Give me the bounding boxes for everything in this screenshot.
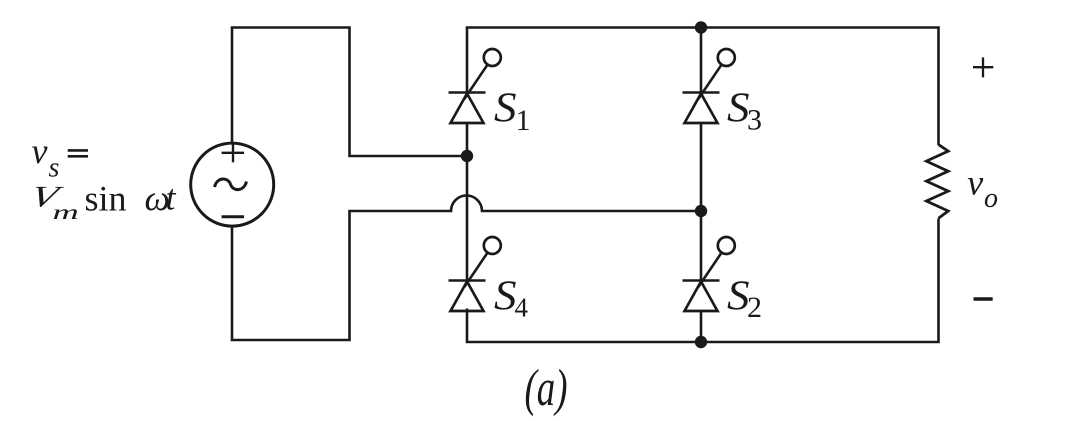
S3 bar bbox=[683, 91, 720, 94]
svg-text:(a): (a) bbox=[525, 360, 568, 417]
top rail: S1 anode - S3 anode - load top bbox=[467, 28, 939, 146]
svg-text:S: S bbox=[494, 274, 517, 320]
S1 cathode wire to node A bbox=[466, 123, 469, 156]
source - polarity mark bbox=[222, 215, 245, 218]
bottom rail: S4 cathode - S2 cathode - load bottom bbox=[467, 219, 939, 343]
label vo bbox=[967, 163, 998, 215]
S2 triangle bbox=[685, 282, 718, 312]
wire: source + terminal loop (top-left) to node A bbox=[232, 28, 467, 157]
S2 anode wire from node B bbox=[700, 211, 703, 281]
svg-text:sin: sin bbox=[85, 179, 127, 219]
wire: source - terminal loop (bottom-left) to node B with crossover hop bbox=[232, 195, 701, 340]
svg-text:s: s bbox=[49, 153, 60, 184]
node B junction dot (S3-S2) bbox=[695, 205, 707, 217]
label + (load polarity) bbox=[973, 57, 993, 77]
switch S4 bbox=[449, 156, 501, 311]
S1 pole circle bbox=[484, 49, 501, 66]
svg-text:v: v bbox=[967, 163, 983, 203]
S4 pole circle bbox=[484, 237, 501, 254]
S4 triangle bbox=[451, 282, 484, 312]
S4 arm bbox=[464, 253, 487, 287]
S2 bar bbox=[683, 279, 720, 282]
S3 anode wire from top rail bbox=[700, 28, 703, 93]
svg-text:o: o bbox=[984, 183, 998, 214]
node: top rail / S3 junction dot bbox=[695, 21, 707, 33]
S1 bar bbox=[449, 91, 486, 94]
switch S1 bbox=[449, 49, 501, 156]
label S3 bbox=[727, 86, 762, 137]
svg-text:2: 2 bbox=[747, 291, 762, 324]
S1 arm bbox=[464, 65, 487, 99]
svg-text:m: m bbox=[53, 202, 79, 224]
svg-text:3: 3 bbox=[747, 104, 762, 137]
S4 bar bbox=[449, 279, 486, 282]
label S4 bbox=[494, 274, 529, 323]
S3 triangle bbox=[685, 94, 718, 124]
node A junction dot (S1-S4) bbox=[461, 150, 473, 162]
label vs = Vm sin wt bbox=[27, 131, 176, 224]
svg-text:S: S bbox=[494, 86, 517, 132]
S3 pole circle bbox=[718, 49, 735, 66]
label S1 bbox=[494, 86, 531, 138]
AC source VS circle bbox=[191, 143, 274, 226]
label - (load polarity) bbox=[974, 297, 993, 300]
S1 triangle bbox=[451, 94, 484, 124]
node: bottom rail / S2 junction dot bbox=[695, 336, 707, 348]
S2 cathode wire to bottom rail bbox=[700, 311, 703, 342]
S4 anode wire from node A (passes under hop) bbox=[466, 156, 469, 281]
svg-text:4: 4 bbox=[515, 293, 529, 323]
svg-text:1: 1 bbox=[516, 104, 531, 137]
switch S2 bbox=[683, 211, 735, 342]
svg-text:v: v bbox=[32, 131, 48, 171]
S2 arm bbox=[698, 253, 721, 287]
svg-text:t: t bbox=[166, 178, 177, 218]
S3 cathode wire to node B bbox=[700, 123, 703, 211]
switch S3 bbox=[683, 28, 735, 212]
S2 pole circle bbox=[718, 237, 735, 254]
S3 arm bbox=[698, 65, 721, 99]
resistor R load zigzag bbox=[926, 145, 948, 219]
source + polarity mark bbox=[222, 143, 245, 162]
source sine symbol bbox=[215, 179, 247, 190]
label S2 bbox=[727, 274, 762, 325]
